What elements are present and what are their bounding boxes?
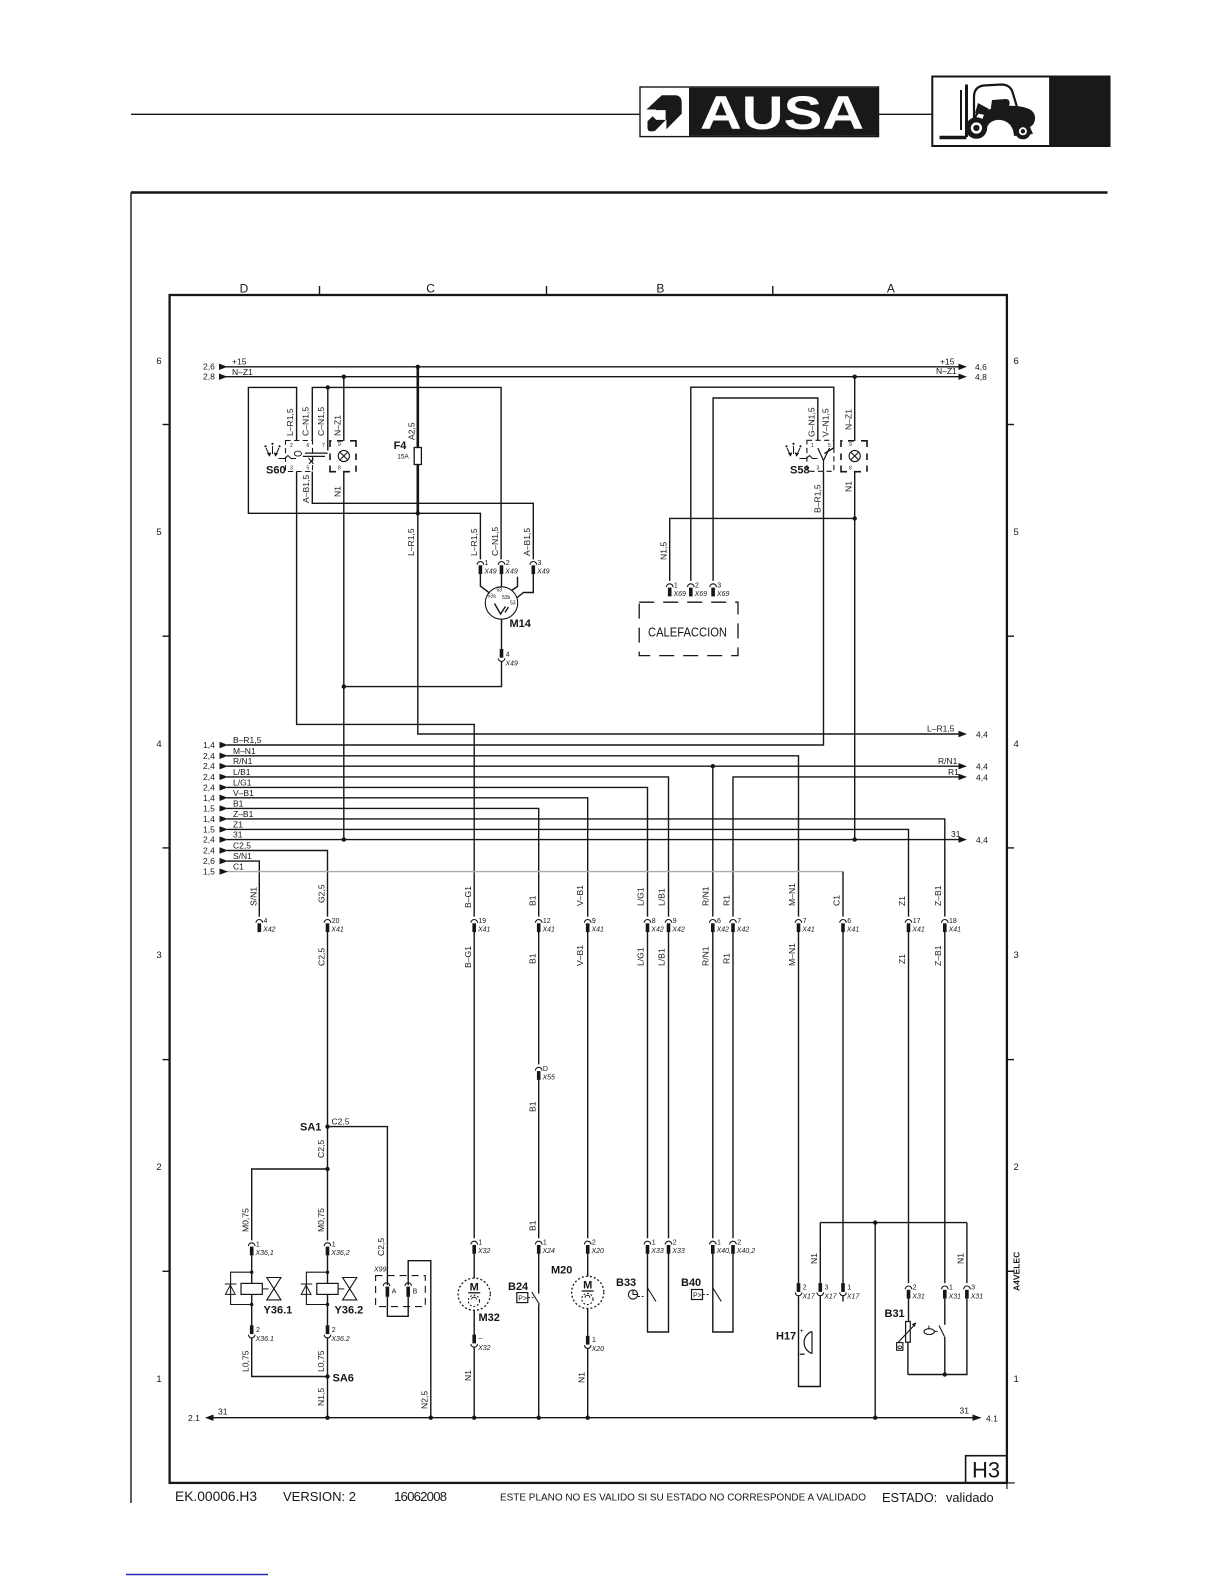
connector pin 7 X42 (R1) (730, 918, 750, 934)
net 31 bus (203, 829, 988, 845)
connector pin 1 X33 (644, 1240, 664, 1256)
net C1 bus (grey) (203, 862, 843, 877)
svg-text:7: 7 (322, 443, 325, 449)
svg-text:17: 17 (913, 918, 921, 925)
wire R/N1 to B40 (712, 932, 714, 1238)
connector pin 2 X17 (795, 1283, 816, 1300)
svg-text:G–N1,5: G–N1,5 (807, 407, 817, 437)
svg-text:X36.2: X36.2 (330, 1336, 349, 1343)
svg-text:C–N1,5: C–N1,5 (301, 407, 311, 436)
node SA1 (325, 1124, 329, 1128)
svg-text:M–N1: M–N1 (787, 883, 797, 906)
connector pin 3 X69 (710, 582, 730, 598)
fuse F4 (394, 440, 422, 465)
wire A2,5 bold feed to fuse F4 (416, 367, 419, 448)
row ticks right edge (1007, 424, 1014, 426)
wire L-R1,5 S60 pin2 to M14 pin1 (248, 387, 480, 559)
svg-text:2,4: 2,4 (203, 751, 215, 761)
svg-text:6: 6 (847, 918, 851, 925)
svg-text:Z1: Z1 (897, 954, 907, 964)
wire C-N1,5 S60 pin6 to M14 pin2 (312, 387, 501, 559)
connector pin 1 X20 (584, 1309, 604, 1354)
svg-text:N–Z1: N–Z1 (232, 367, 253, 377)
svg-text:1,5: 1,5 (203, 824, 215, 834)
row labels (156, 356, 1018, 1385)
net N-Z1 bus (203, 366, 987, 382)
svg-text:+15: +15 (940, 357, 955, 367)
svg-text:5: 5 (307, 466, 310, 472)
svg-text:C: C (426, 282, 435, 296)
svg-text:R1: R1 (722, 953, 732, 964)
connector pin 19 X41 (B-G1) (471, 918, 491, 934)
connector pin 1 X40,1 (710, 1240, 735, 1256)
svg-text:2,6: 2,6 (203, 362, 215, 372)
svg-text:6: 6 (156, 356, 161, 367)
svg-text:EK.00006.H3: EK.00006.H3 (175, 1489, 257, 1504)
svg-text:4: 4 (1014, 739, 1019, 750)
header rule left of AUSA logo (131, 113, 640, 115)
svg-text:2: 2 (913, 1285, 917, 1292)
solenoid valve Y36.2 (301, 1255, 364, 1316)
junction 31/N1 rail (873, 1416, 877, 1420)
svg-text:B–R1,5: B–R1,5 (812, 484, 822, 513)
svg-text:1,5: 1,5 (203, 867, 215, 877)
svg-text:1: 1 (717, 1240, 721, 1247)
svg-text:N–Z1: N–Z1 (333, 415, 343, 436)
svg-text:P>: P> (693, 1293, 702, 1300)
svg-text:7: 7 (737, 918, 741, 925)
wire N1 M20 to 31 (587, 1348, 589, 1417)
net 31 bottom bus (188, 1406, 998, 1424)
svg-text:1: 1 (256, 1241, 260, 1248)
connector pin 17 X41 (Z1) (905, 918, 925, 934)
svg-text:D: D (240, 282, 249, 296)
svg-text:N–Z1: N–Z1 (936, 366, 957, 376)
svg-text:B–R1,5: B–R1,5 (233, 735, 262, 745)
connector pin 2 X40,2 (730, 1240, 755, 1256)
svg-text:V–B1: V–B1 (233, 788, 254, 798)
svg-text:A: A (392, 1289, 397, 1296)
svg-text:P>: P> (518, 1296, 527, 1303)
svg-text:1: 1 (332, 1241, 336, 1248)
net S/N1 bus (203, 851, 259, 917)
svg-text:1,4: 1,4 (203, 740, 215, 750)
svg-text:B–G1: B–G1 (463, 886, 473, 908)
net +15 bus (203, 357, 987, 373)
svg-text:V–B1: V–B1 (575, 885, 585, 906)
svg-text:S60: S60 (266, 465, 286, 477)
svg-text:D: D (543, 1066, 548, 1073)
svg-text:2: 2 (592, 1240, 596, 1247)
net Z1 bus (203, 819, 909, 916)
wire X99 jumper A-B (387, 1297, 408, 1317)
svg-text:X31: X31 (948, 1294, 962, 1301)
svg-text:ESTADO:: ESTADO: (882, 1490, 937, 1505)
net L/B1 bus (203, 767, 669, 917)
svg-text:19: 19 (478, 918, 486, 925)
svg-text:4,4: 4,4 (976, 762, 988, 772)
svg-text:M0,75: M0,75 (316, 1208, 326, 1232)
svg-text:L0,75: L0,75 (316, 1350, 326, 1372)
svg-text:X42: X42 (650, 927, 664, 934)
svg-text:–: – (479, 1336, 483, 1343)
wire L-R1,5 S60 pin3 to B-G1 drop (297, 472, 475, 917)
wire B-G1 to M32 (473, 932, 475, 1238)
svg-text:N1,5: N1,5 (659, 542, 669, 560)
svg-text:N1: N1 (809, 1253, 819, 1264)
wire B24 to 31 (538, 1305, 540, 1418)
page top rule under header (131, 191, 1108, 194)
connector pin 7 X41 (M-N1) (795, 918, 815, 934)
svg-text:1,4: 1,4 (203, 793, 215, 803)
svg-text:CALEFACCION: CALEFACCION (648, 625, 727, 640)
wire G-N1,5 S58 to X69 pin3 (713, 398, 818, 581)
svg-text:X40,2: X40,2 (736, 1248, 755, 1255)
svg-text:M: M (470, 1282, 479, 1294)
svg-text:B40: B40 (681, 1277, 701, 1289)
svg-text:3: 3 (817, 466, 820, 472)
svg-text:X69: X69 (694, 591, 708, 598)
connector X99 (dashed box) (373, 1267, 425, 1307)
svg-text:L/G1: L/G1 (636, 947, 646, 966)
wire labels below connector row (317, 943, 944, 968)
svg-text:1: 1 (1014, 1374, 1019, 1385)
svg-text:2.1: 2.1 (188, 1413, 200, 1423)
svg-text:53: 53 (497, 588, 503, 594)
svg-text:2,6: 2,6 (203, 856, 215, 866)
svg-text:31: 31 (233, 830, 243, 840)
svg-text:2,8: 2,8 (203, 372, 215, 382)
svg-text:H17: H17 (776, 1331, 796, 1343)
svg-text:X41: X41 (801, 927, 815, 934)
svg-text:9: 9 (338, 442, 341, 448)
page left border (130, 193, 132, 1504)
svg-text:X17: X17 (801, 1294, 816, 1301)
svg-text:+15: +15 (232, 357, 247, 367)
svg-text:R1: R1 (948, 767, 959, 777)
svg-text:N1: N1 (333, 486, 343, 497)
svg-text:3: 3 (825, 1285, 829, 1292)
svg-text:X41: X41 (948, 927, 962, 934)
wiper motor M14 (480, 574, 533, 630)
wire C1 drop (842, 872, 844, 917)
connector pin 1 X49 (477, 560, 497, 576)
wire L0,75 Y36.2 to node SA6 (327, 1338, 329, 1377)
svg-text:X55: X55 (542, 1074, 556, 1081)
wire R1 to B40 (732, 932, 734, 1238)
horn H17 (776, 1328, 812, 1354)
svg-text:Z1: Z1 (233, 819, 243, 829)
svg-text:53: 53 (510, 601, 516, 607)
svg-text:Y36.1: Y36.1 (264, 1305, 293, 1317)
svg-text:X33: X33 (671, 1248, 685, 1255)
svg-text:L0,75: L0,75 (240, 1350, 250, 1372)
svg-text:X69: X69 (673, 591, 687, 598)
svg-text:S/N1: S/N1 (249, 887, 259, 906)
svg-text:2,4: 2,4 (203, 846, 215, 856)
svg-text:M20: M20 (551, 1265, 572, 1277)
svg-text:A: A (887, 282, 895, 296)
pump motor M20 (551, 1254, 604, 1309)
svg-text:4: 4 (156, 739, 161, 750)
svg-text:A4VELEC: A4VELEC (1012, 1252, 1022, 1291)
wire branch to Y36.1 (252, 1169, 328, 1240)
junction N-Z1/S58 lamp (853, 375, 857, 379)
svg-text:C2.5: C2.5 (332, 1117, 350, 1127)
svg-text:M14: M14 (510, 618, 532, 630)
svg-text:B–G1: B–G1 (463, 946, 473, 968)
svg-text:X42: X42 (671, 927, 685, 934)
connector pin 6 X41 (C1) (840, 918, 860, 934)
wire M14 pin4 (501, 619, 503, 649)
net R1 to 4,4 (733, 767, 988, 917)
junction N1 rail to 31 (873, 1220, 877, 1224)
svg-text:B: B (656, 282, 664, 296)
svg-text:2: 2 (332, 1327, 336, 1334)
header rule between logo and forklift badge (879, 113, 933, 115)
svg-text:VERSION: 2: VERSION: 2 (283, 1489, 356, 1504)
junction Y36.1 branch (325, 1167, 329, 1171)
svg-text:H3: H3 (972, 1458, 1000, 1483)
svg-text:4,6: 4,6 (975, 362, 987, 372)
svg-text:Z–B1: Z–B1 (933, 885, 943, 906)
connector pin 2 X69 (688, 582, 708, 598)
svg-text:X32: X32 (477, 1248, 491, 1255)
svg-text:B1: B1 (527, 1101, 537, 1112)
svg-text:3: 3 (290, 466, 293, 472)
switch S58 (785, 440, 834, 476)
svg-text:V–N1,5: V–N1,5 (821, 408, 831, 437)
svg-text:X20: X20 (591, 1248, 605, 1255)
svg-text:L/B1: L/B1 (657, 888, 667, 906)
svg-text:M: M (583, 1280, 592, 1292)
frame corner ticks bottom right (1007, 1482, 1015, 1484)
svg-text:1: 1 (847, 1285, 851, 1292)
wire Z1 to B31 (908, 932, 910, 1283)
wire L/G1 to B33 (647, 932, 649, 1238)
svg-text:B1: B1 (528, 895, 538, 906)
svg-text:X17: X17 (846, 1294, 861, 1301)
wire fuse F4 to junction (416, 465, 419, 514)
wire M-N1 to H17 (798, 932, 800, 1283)
svg-text:8: 8 (652, 918, 656, 925)
junction L-R1,5 below F4 (416, 511, 420, 515)
wire B1 to B24 (538, 1080, 540, 1238)
svg-text:1: 1 (156, 1374, 161, 1385)
svg-text:3: 3 (538, 560, 542, 567)
svg-text:X41: X41 (846, 927, 860, 934)
svg-text:4,4: 4,4 (976, 772, 988, 782)
svg-text:9: 9 (592, 918, 596, 925)
svg-text:C2,5: C2,5 (317, 948, 327, 966)
connector pin B X99 (405, 1283, 418, 1297)
svg-text:X36,1: X36,1 (255, 1250, 274, 1257)
FOOTER_START (175, 1489, 994, 1505)
connector pin 3 X49 (530, 560, 550, 576)
wire A-B1,5 S60 pin5 to M14 pin3 (312, 472, 533, 560)
svg-text:4,4: 4,4 (976, 835, 988, 845)
svg-text:X33: X33 (650, 1248, 664, 1255)
junction 31/M32 (472, 1416, 476, 1420)
svg-text:15A: 15A (397, 454, 409, 461)
svg-text:1: 1 (652, 1240, 656, 1247)
junction R/N1 drop (711, 764, 715, 768)
svg-text:V–B1: V–B1 (575, 945, 585, 966)
wire Z-B1 to float switch (944, 932, 946, 1283)
svg-text:1: 1 (478, 1240, 482, 1247)
svg-text:M–N1: M–N1 (233, 746, 256, 756)
svg-text:A2,5: A2,5 (407, 422, 417, 440)
svg-text:2,4: 2,4 (203, 835, 215, 845)
svg-text:1: 1 (485, 560, 489, 567)
wire C2,5 SA1 to X99 pin A (328, 1127, 388, 1286)
svg-text:2: 2 (1014, 1162, 1019, 1173)
svg-text:C2,5: C2,5 (316, 1140, 326, 1158)
svg-text:R/N1: R/N1 (701, 946, 711, 966)
junction +15/A2,5 (416, 365, 420, 369)
wire to Y36.1 coil (251, 1255, 253, 1283)
connector pin 3 X31 (964, 1285, 984, 1301)
svg-text:SA1: SA1 (300, 1122, 321, 1134)
wire C2,5 to node SA1 (327, 932, 329, 1127)
connector pin 1 X24 (535, 1240, 555, 1256)
svg-text:X41: X41 (591, 927, 605, 934)
connector pin 9 X42 (L/B1) (665, 918, 685, 934)
svg-text:Z–B1: Z–B1 (233, 809, 254, 819)
svg-text:X41: X41 (542, 927, 556, 934)
svg-text:N–Z1: N–Z1 (844, 409, 854, 430)
svg-text:2,4: 2,4 (203, 782, 215, 792)
connector pin A X99 (383, 1283, 396, 1297)
svg-text:B24: B24 (508, 1281, 529, 1293)
wire B1 to X55 (538, 932, 540, 1065)
svg-text:2,4: 2,4 (203, 761, 215, 771)
svg-text:2: 2 (803, 1285, 807, 1292)
svg-text:C–N1,5: C–N1,5 (316, 407, 326, 436)
svg-text:B1: B1 (528, 953, 538, 964)
svg-text:4,8: 4,8 (975, 372, 987, 382)
svg-text:31: 31 (951, 829, 961, 839)
net B-R1,5 bus to S58 (203, 471, 824, 750)
wire N-Z1 drop to S60 lamp (343, 377, 345, 441)
svg-text:R/N1: R/N1 (701, 886, 711, 906)
junction N1/M14 pin4 (342, 684, 346, 688)
svg-text:4,4: 4,4 (976, 730, 988, 740)
wire N1 M32 to 31 (473, 1347, 475, 1418)
svg-text:2,4: 2,4 (203, 772, 215, 782)
connector pin 18 X41 (Z-B1) (942, 918, 962, 934)
svg-text:N1: N1 (463, 1370, 473, 1381)
svg-text:S58: S58 (790, 465, 810, 477)
connector pin 2 X31 (905, 1285, 925, 1301)
svg-text:L/B1: L/B1 (233, 767, 251, 777)
svg-text:1: 1 (543, 1240, 547, 1247)
junction B31 bottom (943, 1372, 947, 1376)
svg-text:3: 3 (156, 950, 161, 961)
net C2,5 bus (203, 841, 328, 917)
wire N1 S60 lamp to 31 bus (343, 472, 345, 840)
connector pin D X55 (535, 1066, 555, 1082)
connector pin 2 X33 (665, 1240, 685, 1256)
svg-text:X36.1: X36.1 (255, 1336, 274, 1343)
svg-text:L/G1: L/G1 (233, 777, 252, 787)
indicator lamp in S60 (bracket box) (330, 441, 356, 472)
pump motor M32 (458, 1254, 500, 1324)
fuel level sender B31 (885, 1299, 917, 1375)
wire C1 to X17 pin 1 (842, 932, 844, 1283)
svg-text:X41: X41 (330, 927, 344, 934)
switch S60 (264, 441, 327, 477)
svg-text:X41: X41 (477, 927, 491, 934)
svg-text:12: 12 (543, 918, 551, 925)
junction N1,5/X69 (853, 516, 857, 520)
wire N-Z1 drop to S58 lamp (854, 377, 856, 441)
net L/G1 bus (203, 777, 648, 916)
float switch contact B31 (924, 1299, 945, 1375)
svg-text:6: 6 (717, 918, 721, 925)
title block H3 (966, 1456, 1007, 1483)
wire N1 S58 lamp down to 31 bus (854, 472, 856, 840)
AUSA logo box (640, 86, 879, 139)
svg-text:B1: B1 (233, 798, 244, 808)
wire N2,5 X99 pin B to 31 (408, 1261, 431, 1418)
wire labels above connector row (249, 883, 944, 908)
svg-text:X99: X99 (373, 1267, 387, 1274)
wire L0,75 Y36.1 to node SA6 (252, 1338, 328, 1377)
svg-text:C1: C1 (832, 895, 842, 906)
svg-text:N1: N1 (576, 1372, 586, 1383)
svg-text:F4: F4 (394, 440, 408, 452)
svg-text:5: 5 (156, 527, 161, 538)
svg-text:N1,5: N1,5 (316, 1388, 326, 1406)
wire stub below X17 pin1 (842, 1296, 844, 1302)
svg-text:X20: X20 (591, 1346, 605, 1353)
column ticks top edge (319, 286, 321, 295)
svg-text:N1: N1 (956, 1253, 966, 1264)
svg-text:R/N1: R/N1 (233, 756, 253, 766)
connector pin 4 X42 (S/N1) (256, 918, 276, 934)
net B1 bus (203, 798, 539, 916)
junction N-Z1/S60 lamp (342, 375, 346, 379)
svg-text:8: 8 (849, 466, 852, 472)
svg-text:18: 18 (949, 918, 957, 925)
connector pin 8 X42 (L/G1) (644, 918, 664, 934)
connector pin 1 X32 (471, 1240, 491, 1256)
svg-text:2: 2 (506, 560, 510, 567)
footer link underline (126, 1574, 268, 1576)
svg-text:X49: X49 (504, 661, 518, 668)
svg-text:3: 3 (971, 1285, 975, 1292)
svg-text:2: 2 (737, 1240, 741, 1247)
connector pin 2 X20 (584, 1240, 604, 1256)
wire R/N1 drop (712, 766, 714, 916)
connector pin 12 X41 (B1) (535, 918, 555, 934)
svg-text:B33: B33 (616, 1277, 636, 1289)
connector pin 6 X42 (R/N1) (710, 918, 730, 934)
svg-text:2: 2 (256, 1327, 260, 1334)
net M-N1 bus (203, 746, 799, 917)
svg-text:X42: X42 (716, 927, 730, 934)
pressure switch B40 (681, 1254, 733, 1332)
svg-text:16062008: 16062008 (394, 1489, 447, 1504)
wire M14 pin4 to N1 (344, 662, 502, 687)
svg-text:A–B1,5: A–B1,5 (301, 475, 311, 503)
svg-text:ESTE PLANO NO ES VALIDO SI SU: ESTE PLANO NO ES VALIDO SI SU ESTADO NO … (500, 1493, 866, 1504)
svg-text:X17: X17 (823, 1294, 838, 1301)
svg-text:Z–B1: Z–B1 (933, 945, 943, 966)
svg-text:X42: X42 (736, 927, 750, 934)
connector pin 3 X17 (817, 1283, 838, 1300)
